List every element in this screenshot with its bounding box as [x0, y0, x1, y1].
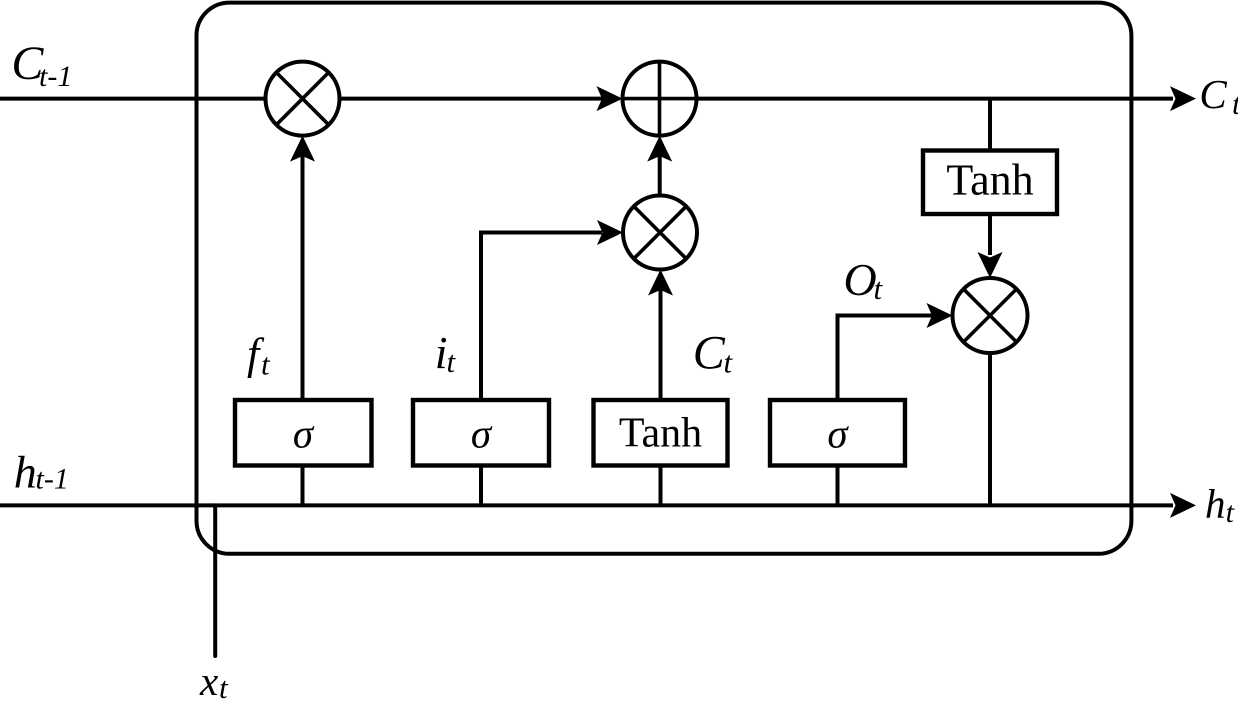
wire: drop from sigma box 2 to h line: [479, 466, 483, 506]
wire: C line from add circle to output arrow: [697, 97, 1174, 101]
wire: right Tanh box down toward right multiply circle: [988, 214, 992, 255]
svg-text:h: h: [1205, 481, 1226, 527]
svg-text:σ: σ: [293, 411, 315, 457]
svg-text:Tanh: Tanh: [619, 411, 702, 457]
sigma box 2 (input gate): [413, 400, 549, 466]
arrowhead down into right multiply circle from right Tanh: [978, 252, 1003, 278]
add circle: [623, 62, 697, 136]
wire: drop from sigma box 4 to h line: [836, 466, 840, 506]
wire: drop from Tanh box 3 to h line: [659, 466, 663, 506]
svg-text:σ: σ: [471, 411, 493, 457]
arrowhead h_t output: [1170, 493, 1196, 518]
wire: middle multiply circle to add circle: [658, 156, 662, 196]
wire: C line between multiply circle and add circle: [340, 97, 603, 101]
svg-text:x: x: [199, 658, 218, 701]
svg-text:t: t: [874, 271, 884, 306]
wire: branch from C line down to right Tanh box: [988, 99, 992, 151]
wire: h(t-1) bottom line: [0, 503, 1173, 507]
Tanh box right (output activation): [923, 151, 1057, 215]
X cross of forget multiply circle: [276, 72, 328, 124]
svg-text:t: t: [1226, 496, 1235, 529]
arrowhead up into middle multiply circle from Tanh box: [648, 270, 673, 296]
wire: right multiply circle down to h line: [988, 353, 992, 505]
sigma box 4 (output gate): [770, 400, 905, 466]
svg-text:t: t: [447, 344, 457, 379]
wire: riser from sigma box 1 up to multiply circle: [301, 156, 305, 400]
svg-text:C: C: [693, 327, 726, 380]
X cross of right multiply circle: [964, 289, 1017, 342]
right multiply circle: [953, 278, 1028, 353]
sigma box 1 (forget gate): [235, 400, 372, 466]
svg-text:t: t: [1232, 86, 1238, 121]
arrowhead right into middle multiply circle: [597, 220, 623, 245]
arrowhead C_t output: [1170, 86, 1196, 111]
wire: drop from sigma box 1 to h line: [301, 466, 305, 506]
svg-text:O: O: [844, 254, 877, 305]
arrowhead up into forget multiply circle: [290, 136, 315, 162]
LSTM cell boundary rounded rectangle: [197, 3, 1132, 554]
wire: riser from sigma box 2 up and right to middle multiply circle: [481, 233, 602, 401]
arrowhead up into add circle from middle multiply: [647, 136, 672, 162]
wire: x_t input vertical line: [213, 505, 217, 656]
svg-text:Tanh: Tanh: [946, 156, 1033, 205]
svg-text:t-1: t-1: [36, 463, 69, 496]
Tanh box 3 (candidate): [594, 400, 728, 466]
wire: riser from sigma box 4 up and right to right multiply circle: [838, 316, 933, 401]
plus cross of add circle: [658, 62, 662, 136]
svg-text:h: h: [14, 447, 37, 498]
multiply circle (forget gate): [266, 62, 340, 136]
arrowhead into add circle from left: [597, 86, 623, 111]
arrowhead right into right multiply circle: [927, 303, 953, 328]
svg-text:t: t: [724, 345, 734, 380]
X cross of middle multiply circle: [634, 206, 686, 258]
svg-text:t: t: [219, 670, 229, 701]
svg-text:t-1: t-1: [39, 60, 72, 93]
svg-text:σ: σ: [827, 411, 849, 457]
svg-text:C: C: [1199, 71, 1227, 117]
middle multiply circle: [623, 196, 697, 270]
svg-text:t: t: [261, 347, 271, 382]
wire: C(t-1) input line left segment: [0, 97, 266, 101]
wire: riser from Tanh box 3 up to middle multiply circle: [659, 290, 663, 400]
